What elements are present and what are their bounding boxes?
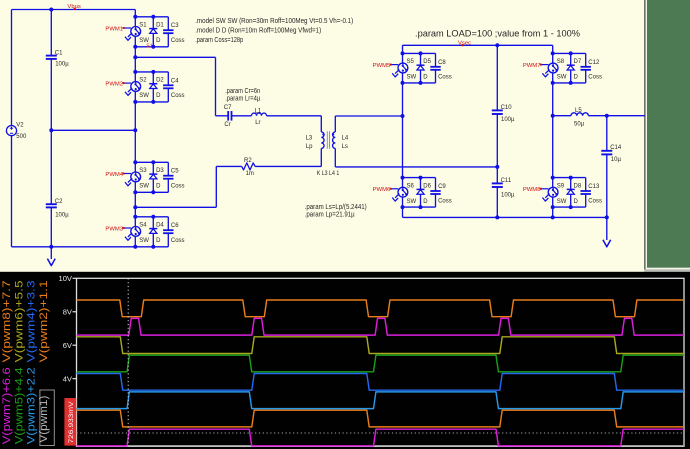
svg-text:K L3 L4 1: K L3 L4 1 <box>317 170 340 177</box>
capacitor C1 <box>50 10 52 56</box>
capacitor C2 <box>50 130 52 204</box>
wire L1 to transformer <box>267 115 322 117</box>
capacitor C5 (Coss) <box>167 162 169 175</box>
wire cell S6 top <box>403 177 436 179</box>
svg-text:S8: S8 <box>557 59 565 65</box>
svg-text:.model SW SW (Ron=30m Roff=100: .model SW SW (Ron=30m Roff=100Meg Vt=0.5… <box>195 18 353 25</box>
cursor readout 726.933mV <box>64 398 76 446</box>
svg-text:V(pwm4)+3.3: V(pwm4)+3.3 <box>26 280 38 362</box>
svg-text:PWM1: PWM1 <box>105 26 123 32</box>
svg-text:C11: C11 <box>501 178 512 184</box>
junction dots cell S1 <box>133 15 137 19</box>
switch S1 control stub and mini ground <box>124 27 131 29</box>
svg-text:L1: L1 <box>255 108 262 114</box>
svg-text:.param Ls=Lp/(5.2441): .param Ls=Lp/(5.2441) <box>305 204 367 211</box>
junction dots cell S2 <box>133 70 137 74</box>
wire cell S9 top <box>553 177 586 179</box>
junction dots cell S3 <box>133 160 137 164</box>
ground (main) <box>50 247 52 259</box>
wire cell S1 top <box>135 16 168 18</box>
svg-text:Coss: Coss <box>588 74 602 80</box>
wire bottom rail <box>12 246 136 248</box>
capacitor C3 (Coss) <box>167 17 169 30</box>
node phase A junction <box>133 55 137 59</box>
trace V(pwm4) <box>77 374 685 391</box>
svg-text:SW: SW <box>407 75 417 81</box>
trace V(pwm1) <box>77 429 685 446</box>
svg-text:S1: S1 <box>139 23 147 29</box>
capacitor C8 (Coss) <box>435 53 437 66</box>
transformer secondary L4 (Ls) <box>333 132 336 149</box>
svg-text:10µ: 10µ <box>611 157 622 163</box>
cursor vertical dotted line <box>127 278 129 446</box>
svg-text:S6: S6 <box>407 183 415 189</box>
svg-text:Cr: Cr <box>224 122 230 128</box>
svg-text:C12: C12 <box>588 60 600 66</box>
svg-text:S3: S3 <box>139 168 147 174</box>
diode D1 <box>152 17 154 29</box>
svg-text:8V: 8V <box>63 307 73 316</box>
time axis gray segments <box>128 445 250 447</box>
capacitor C10 <box>496 45 498 110</box>
junction dots left column <box>49 8 53 12</box>
svg-text:V(pwm2)+1.1: V(pwm2)+1.1 <box>38 280 50 362</box>
svg-text:C13: C13 <box>588 184 600 190</box>
svg-text:.param LOAD=100 ;value from 1: .param LOAD=100 ;value from 1 - 100% <box>415 29 580 39</box>
svg-text:C4: C4 <box>171 78 179 84</box>
svg-text:C5: C5 <box>171 169 179 175</box>
svg-text:SW: SW <box>139 238 149 244</box>
svg-text:SW: SW <box>407 199 417 205</box>
wire top bus rail <box>12 9 136 11</box>
svg-text:100µ: 100µ <box>501 193 515 199</box>
wire C7 to L1 <box>232 115 252 117</box>
capacitor C9 (Coss) <box>435 178 437 191</box>
wire cell S5 bottom <box>403 82 436 84</box>
svg-text:SW: SW <box>557 75 567 81</box>
svg-text:Coss: Coss <box>438 199 452 205</box>
trace V(pwm2) <box>77 410 685 427</box>
svg-text:D: D <box>574 199 579 205</box>
svg-text:PWM6: PWM6 <box>373 187 391 193</box>
svg-text:D6: D6 <box>423 183 431 189</box>
svg-text:SW: SW <box>557 199 567 205</box>
switch S4 <box>134 217 136 227</box>
svg-text:D3: D3 <box>156 168 164 174</box>
svg-text:D7: D7 <box>574 59 582 65</box>
svg-text:.param Cr=6n: .param Cr=6n <box>225 88 260 95</box>
svg-text:6V: 6V <box>63 341 73 350</box>
capacitor C13 (Coss) <box>585 178 587 191</box>
wire left source column <box>11 10 13 126</box>
svg-text:V(pwm3)+2.2: V(pwm3)+2.2 <box>26 367 38 444</box>
svg-text:Coss: Coss <box>171 93 185 99</box>
inductor L1 (Lr) <box>252 113 267 116</box>
diode D2 <box>152 72 154 84</box>
switch S5 control stub and mini ground <box>391 64 398 66</box>
svg-text:C8: C8 <box>438 60 446 66</box>
svg-text:.model D D (Ron=10m Roff=100Me: .model D D (Ron=10m Roff=100Meg Vfwd=1) <box>195 28 321 35</box>
wire cell S6 bottom <box>403 206 436 208</box>
svg-text:Lr: Lr <box>255 120 260 126</box>
wire primary leg segments <box>134 10 136 17</box>
svg-text:Coss: Coss <box>171 183 185 189</box>
switch S3 <box>134 162 136 172</box>
svg-text:PWM7: PWM7 <box>523 63 541 69</box>
svg-text:Coss: Coss <box>171 238 185 244</box>
wire phase A to tank <box>135 56 215 58</box>
svg-text:C6: C6 <box>171 223 179 229</box>
capacitor C4 (Coss) <box>167 72 169 85</box>
ground (secondary) <box>606 217 608 240</box>
wire L4 bottom to capacitor midpoint <box>334 148 336 167</box>
svg-text:V(pwm6)+5.5: V(pwm6)+5.5 <box>13 280 25 362</box>
svg-text:Vsec: Vsec <box>458 41 471 47</box>
svg-text:L4: L4 <box>342 135 349 141</box>
wire cell S5 top <box>403 52 436 54</box>
svg-text:D2: D2 <box>156 78 164 84</box>
svg-text:V(pwm1): V(pwm1) <box>38 395 50 442</box>
svg-text:.param Lr=4µ: .param Lr=4µ <box>225 95 260 102</box>
capacitor C12 (Coss) <box>585 53 587 66</box>
svg-text:D: D <box>423 199 428 205</box>
svg-text:V(pwm8)+7.7: V(pwm8)+7.7 <box>1 280 13 362</box>
wire L4 top to secondary phase <box>335 115 402 117</box>
wire cell S2 top <box>135 71 168 73</box>
wire cell S3 top <box>135 161 168 163</box>
svg-text:PWM4: PWM4 <box>105 172 123 178</box>
svg-text:SW: SW <box>139 184 149 190</box>
switch S8 control stub and mini ground <box>541 64 548 66</box>
svg-text:500: 500 <box>16 134 27 140</box>
diode D3 <box>152 162 154 174</box>
svg-text:100µ: 100µ <box>55 212 69 218</box>
capacitor C14 <box>606 116 608 151</box>
svg-text:1m: 1m <box>246 171 254 177</box>
svg-text:L5: L5 <box>575 108 582 114</box>
diode D7 <box>570 53 572 65</box>
svg-text:V2: V2 <box>16 123 24 129</box>
wire cell S1 bottom <box>135 46 168 48</box>
switch S9 control stub and mini ground <box>541 188 548 190</box>
diode D6 <box>420 178 422 190</box>
voltage source V2 <box>6 126 16 136</box>
wire Vsec rail <box>403 44 553 46</box>
svg-text:50µ: 50µ <box>574 121 585 127</box>
wire cell S8 bottom <box>553 82 586 84</box>
svg-text:PWM8: PWM8 <box>523 187 541 193</box>
inductor L5 <box>571 113 588 116</box>
svg-text:D5: D5 <box>423 59 431 65</box>
wire cell S3 bottom <box>135 191 168 193</box>
svg-text:C9: C9 <box>438 184 446 190</box>
svg-text:C2: C2 <box>55 199 63 205</box>
svg-text:V(pwm7)+6.6: V(pwm7)+6.6 <box>1 367 13 444</box>
switch S2 control stub and mini ground <box>124 82 131 84</box>
cursor horizontal dotted line <box>77 432 685 434</box>
svg-text:100µ: 100µ <box>501 117 515 123</box>
wire cell S2 bottom <box>135 101 168 103</box>
wire divider midpoint to bridge midpoint <box>51 129 135 131</box>
transformer primary L3 (Lp) <box>321 132 324 149</box>
svg-text:Coss: Coss <box>588 199 602 205</box>
svg-text:D4: D4 <box>156 223 164 229</box>
svg-text:D: D <box>156 184 161 190</box>
svg-text:PWM2: PWM2 <box>105 82 123 88</box>
trace V(pwm3) <box>77 392 685 409</box>
diode D5 <box>420 53 422 65</box>
green window area top-right <box>644 0 645 270</box>
svg-text:Coss: Coss <box>171 38 185 44</box>
node phase B junction <box>133 205 137 209</box>
svg-text:.param Lp=21.91µ: .param Lp=21.91µ <box>305 212 355 219</box>
svg-text:SW: SW <box>139 93 149 99</box>
junction dots cell S4 <box>133 215 137 219</box>
trace V(pwm5) <box>77 355 685 372</box>
svg-text:100µ: 100µ <box>55 62 69 68</box>
svg-text:4V: 4V <box>63 374 73 383</box>
switch S8 <box>552 53 554 63</box>
svg-text:D: D <box>156 238 161 244</box>
switch S6 control stub and mini ground <box>391 188 398 190</box>
node midpoint junction <box>133 128 137 132</box>
svg-text:S9: S9 <box>557 183 565 189</box>
wire cell S9 bottom <box>553 206 586 208</box>
wire secondary legs <box>402 83 404 178</box>
junction dots cell S6 <box>401 176 405 180</box>
capacitor C11 <box>496 167 498 184</box>
svg-text:.param Coss=128p: .param Coss=128p <box>195 37 243 44</box>
wire L5 branch <box>553 115 571 117</box>
waveform pane background <box>0 272 690 449</box>
wire secondary bottom rail <box>403 216 607 218</box>
switch S4 control stub and mini ground <box>124 227 131 229</box>
svg-text:D1: D1 <box>156 23 164 29</box>
switch S6 <box>402 178 404 188</box>
svg-text:726.933mV: 726.933mV <box>68 401 75 444</box>
wire R2 to phase B <box>216 165 241 167</box>
transformer core <box>326 131 328 149</box>
switch S1 <box>134 17 136 27</box>
svg-text:Lp: Lp <box>306 144 313 150</box>
wire cell S4 bottom <box>135 246 168 248</box>
svg-text:V(pwm5)+4.4: V(pwm5)+4.4 <box>13 367 25 444</box>
trace V(pwm7) <box>77 318 685 335</box>
svg-text:C10: C10 <box>501 105 513 111</box>
svg-text:D: D <box>423 75 428 81</box>
junction dots cell S9 <box>551 176 555 180</box>
capacitor C6 (Coss) <box>167 217 169 230</box>
diode D8 <box>570 178 572 190</box>
svg-text:C14: C14 <box>610 145 622 151</box>
svg-text:C1: C1 <box>55 51 63 57</box>
wire L5 to output edge <box>588 115 644 117</box>
svg-text:PWM3: PWM3 <box>105 226 123 232</box>
junction dots cell S8 <box>551 51 555 55</box>
svg-text:S4: S4 <box>139 223 147 229</box>
diode D4 <box>152 217 154 229</box>
svg-text:S2: S2 <box>139 78 147 84</box>
svg-text:D: D <box>156 38 161 44</box>
svg-text:10V: 10V <box>58 274 72 283</box>
wire L3 bottom to R2 <box>320 148 322 166</box>
switch S2 <box>134 72 136 82</box>
wire cell S4 top <box>135 216 168 218</box>
junction dots cell S5 <box>401 51 405 55</box>
capacitor C7 (Cr, series) <box>227 111 229 121</box>
trace V(pwm6) <box>77 337 685 354</box>
switch S9 <box>552 178 554 188</box>
svg-text:PWM5: PWM5 <box>373 63 391 69</box>
switch S3 control stub and mini ground <box>124 173 131 175</box>
svg-text:Ls: Ls <box>342 144 348 150</box>
y axis ticks and labels <box>73 277 77 279</box>
svg-text:L3: L3 <box>306 135 313 141</box>
node secondary phase junctions <box>401 114 405 118</box>
svg-text:D8: D8 <box>574 183 582 189</box>
svg-text:D: D <box>156 93 161 99</box>
resistor R2 <box>242 163 255 170</box>
waveform plot frame <box>77 278 685 446</box>
svg-text:R2: R2 <box>244 158 252 164</box>
wire cell S8 top <box>553 52 586 54</box>
svg-text:D: D <box>574 75 579 81</box>
svg-text:C7: C7 <box>224 105 232 111</box>
svg-text:Coss: Coss <box>438 74 452 80</box>
trace V(pwm8) <box>77 300 685 317</box>
switch S5 <box>402 53 404 63</box>
svg-text:C3: C3 <box>171 23 179 29</box>
svg-text:S5: S5 <box>407 59 415 65</box>
